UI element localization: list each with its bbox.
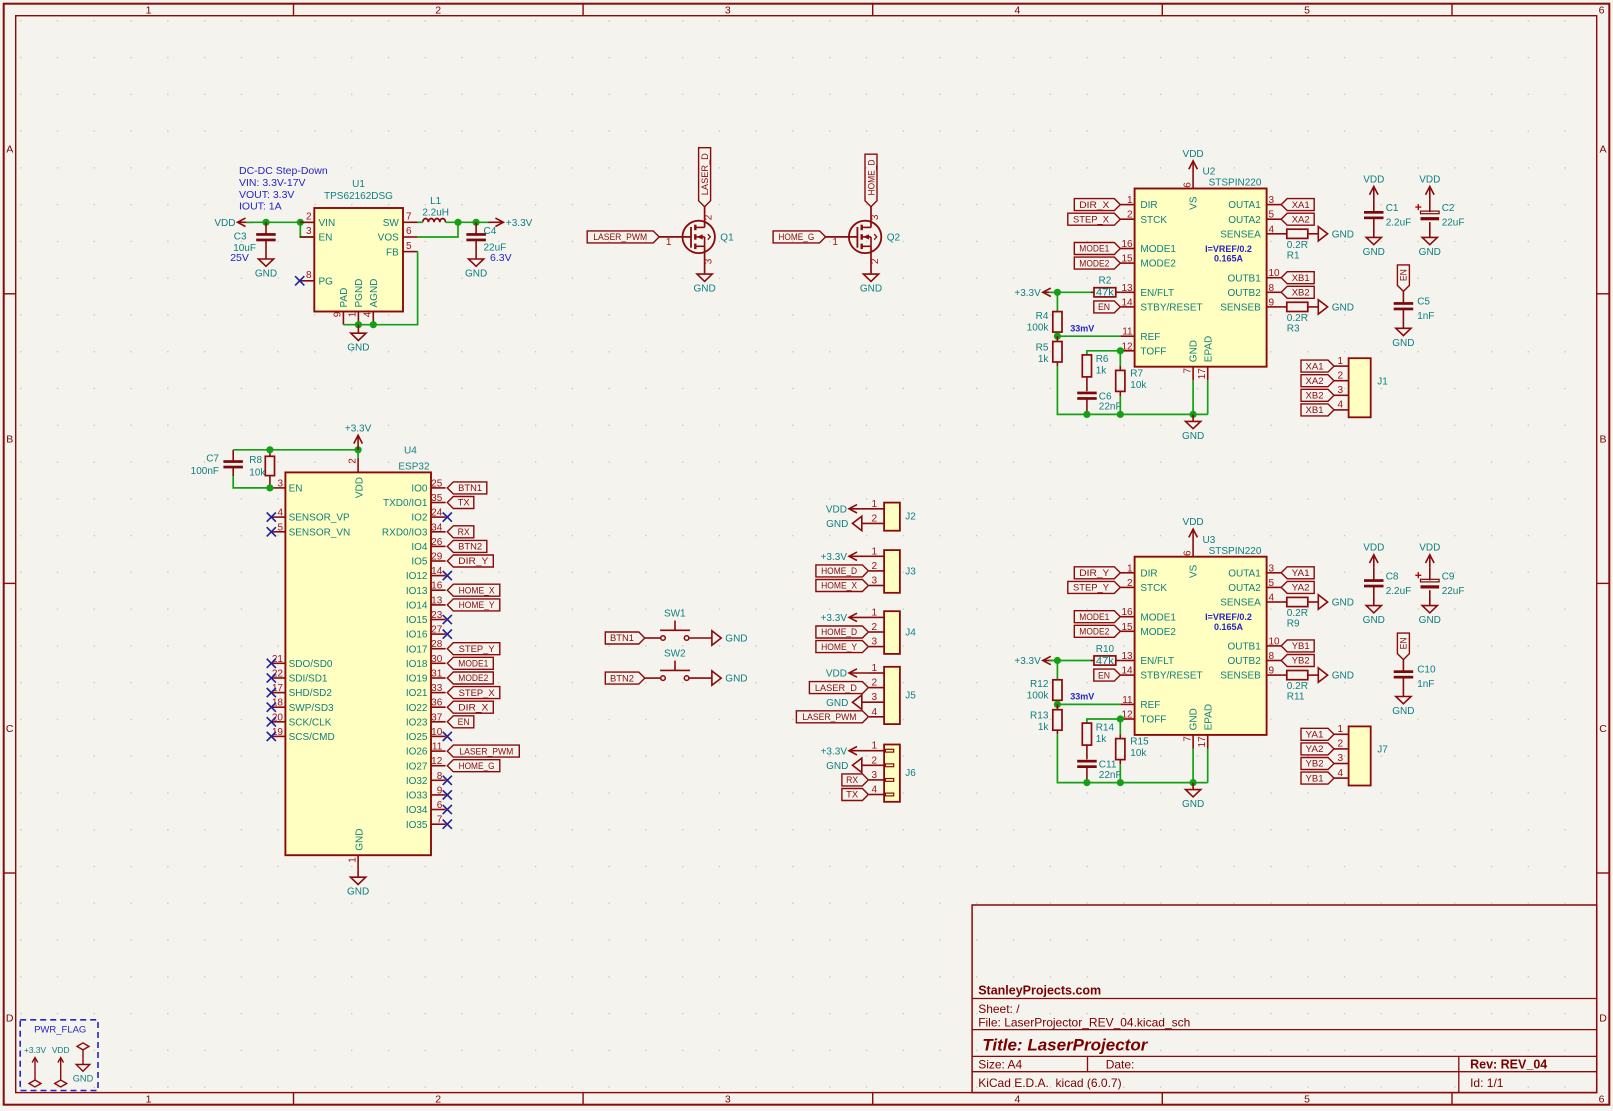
global label LASER_PWM	[587, 231, 659, 243]
svg-text:8: 8	[1269, 651, 1275, 662]
svg-text:9: 9	[1269, 297, 1275, 308]
svg-text:37: 37	[431, 712, 443, 723]
svg-text:1nF: 1nF	[1417, 679, 1434, 690]
svg-text:C3: C3	[234, 232, 247, 243]
svg-text:YA2: YA2	[1306, 744, 1324, 755]
pin 9 SENSEB	[1267, 306, 1282, 308]
junction	[297, 219, 304, 226]
capacitor C4	[466, 222, 506, 259]
svg-text:8: 8	[306, 270, 312, 281]
pin 9 PAD	[342, 312, 344, 325]
svg-text:+3.3V: +3.3V	[345, 423, 372, 434]
IC U3 STSPIN220	[1120, 535, 1281, 749]
pin 7 GND	[1192, 735, 1194, 749]
svg-text:U1: U1	[352, 179, 365, 190]
power flag GND	[73, 1043, 94, 1083]
global label STEP_X	[1068, 213, 1121, 225]
svg-text:6: 6	[1599, 1093, 1605, 1105]
pin 3 source	[704, 246, 706, 273]
svg-text:14: 14	[1121, 297, 1133, 308]
pin 20 SCK/CLK	[271, 721, 285, 723]
svg-text:IO0: IO0	[411, 484, 428, 495]
no-connect	[267, 659, 276, 668]
svg-text:J1: J1	[1377, 376, 1388, 387]
svg-text:1: 1	[1127, 195, 1133, 206]
pin 10 OUTB1	[1267, 277, 1282, 279]
svg-text:TPS62162DSG: TPS62162DSG	[324, 191, 393, 202]
svg-text:YA2: YA2	[1292, 583, 1310, 594]
pin 3 drain	[870, 207, 872, 228]
svg-text:SENSOR_VN: SENSOR_VN	[289, 527, 351, 538]
global label YA1	[1301, 728, 1334, 740]
svg-text:VIN: VIN	[319, 218, 336, 229]
IC U4 ESP32	[271, 445, 445, 870]
svg-text:11: 11	[432, 742, 443, 753]
pin 1	[869, 555, 884, 557]
resistor R11 0.2R	[1281, 671, 1318, 703]
global label DIR_X	[447, 701, 493, 713]
power VDD	[1183, 149, 1204, 174]
svg-text:MODE2: MODE2	[1140, 627, 1176, 638]
svg-text:GND: GND	[73, 1073, 94, 1083]
svg-text:22: 22	[272, 669, 284, 680]
svg-text:VDD: VDD	[354, 477, 365, 498]
svg-text:C5: C5	[1417, 296, 1430, 307]
svg-text:DC-DC Step-Down: DC-DC Step-Down	[239, 165, 328, 177]
svg-text:VDD: VDD	[826, 669, 847, 680]
wire	[1119, 719, 1121, 734]
pin 6 VS	[1192, 174, 1194, 189]
power VDD	[1363, 543, 1384, 568]
junction	[1054, 701, 1061, 708]
svg-text:Date:: Date:	[1106, 1057, 1135, 1071]
pin 1 gate	[826, 236, 858, 238]
note DC-DC Step-Down specs	[239, 165, 328, 212]
svg-text:XB1: XB1	[1292, 273, 1310, 284]
svg-text:2: 2	[871, 622, 877, 633]
global label HOME_D	[865, 154, 877, 207]
svg-text:EN: EN	[289, 484, 303, 495]
global label LASER_D	[809, 682, 868, 694]
wire	[1087, 351, 1120, 355]
svg-text:IO4: IO4	[411, 542, 428, 553]
svg-text:R4: R4	[1036, 311, 1049, 322]
pin 5 SENSOR_VN	[271, 531, 285, 533]
svg-text:DIR_X: DIR_X	[1079, 200, 1110, 211]
svg-text:LASER_PWM: LASER_PWM	[459, 746, 513, 757]
junction	[370, 321, 377, 328]
svg-text:24: 24	[431, 508, 443, 519]
svg-text:17: 17	[1197, 736, 1208, 748]
pin 1	[1334, 733, 1349, 735]
wire	[233, 449, 358, 451]
wire	[300, 222, 314, 237]
no-connect	[267, 673, 276, 682]
svg-text:C1: C1	[1386, 203, 1399, 214]
svg-text:TOFF: TOFF	[1140, 715, 1166, 726]
pin 1 gate	[659, 236, 691, 238]
pin 6 VOS	[403, 236, 418, 238]
svg-text:5: 5	[277, 522, 283, 533]
junction	[1054, 289, 1061, 296]
svg-text:VOUT: 3.3V: VOUT: 3.3V	[239, 189, 294, 201]
svg-text:BTN2: BTN2	[458, 542, 482, 553]
svg-text:47k: 47k	[1096, 288, 1115, 299]
pin 34 RXD0/IO3	[431, 531, 446, 533]
svg-text:33: 33	[431, 683, 443, 694]
svg-text:IO12: IO12	[406, 571, 428, 582]
capacitor C9 22uF polarized	[1415, 567, 1464, 605]
svg-text:GND: GND	[1392, 338, 1414, 349]
power +3.3V	[821, 746, 869, 757]
svg-text:IO34: IO34	[406, 805, 428, 816]
pin 33 IO21	[431, 692, 446, 694]
capacitor C5 1nF	[1394, 291, 1435, 328]
power flag VDD	[52, 1045, 70, 1087]
pin 37 IO23	[431, 721, 446, 723]
svg-text:10k: 10k	[249, 467, 266, 478]
global label RX	[842, 774, 869, 786]
power VDD	[214, 218, 253, 229]
svg-text:1: 1	[871, 546, 877, 557]
connector J6	[862, 741, 916, 802]
svg-text:1: 1	[146, 4, 152, 16]
svg-text:MODE2: MODE2	[1079, 627, 1109, 638]
svg-text:GND: GND	[1363, 247, 1385, 258]
svg-text:GND: GND	[465, 269, 487, 280]
svg-text:3: 3	[871, 637, 877, 648]
junction	[355, 321, 362, 328]
svg-text:GND: GND	[693, 284, 715, 295]
junction	[1117, 715, 1124, 722]
no-connect	[267, 717, 276, 726]
svg-text:YA1: YA1	[1306, 730, 1324, 741]
global label TX	[842, 789, 869, 801]
svg-text:J2: J2	[905, 512, 916, 523]
svg-text:9: 9	[437, 785, 443, 796]
svg-text:15: 15	[1121, 254, 1133, 265]
svg-text:B: B	[6, 433, 13, 445]
svg-text:0.2R: 0.2R	[1287, 608, 1308, 619]
pin 17 EPAD	[1207, 735, 1209, 749]
wire	[357, 450, 359, 458]
svg-text:29: 29	[431, 552, 443, 563]
wire	[1056, 292, 1058, 311]
svg-text:1: 1	[347, 857, 358, 863]
resistor R13 1k	[1030, 704, 1062, 734]
pin 2 STCK	[1120, 586, 1134, 588]
global label YA2	[1281, 581, 1314, 593]
pin 4	[869, 716, 884, 718]
svg-text:2: 2	[871, 678, 877, 689]
svg-text:STEP_X: STEP_X	[459, 688, 496, 699]
svg-text:SW: SW	[383, 218, 400, 229]
capacitor C10 1nF	[1394, 660, 1436, 697]
pin 15 MODE2	[1120, 630, 1134, 632]
svg-text:A: A	[6, 144, 13, 156]
svg-text:MODE2: MODE2	[458, 673, 488, 684]
pin 8 OUTB2	[1267, 291, 1282, 293]
global label EN	[447, 716, 474, 728]
svg-text:9: 9	[333, 311, 344, 317]
pin 4	[1334, 409, 1349, 411]
global label HOME_G	[773, 231, 826, 243]
svg-text:RX: RX	[846, 775, 859, 786]
svg-text:VOS: VOS	[378, 233, 399, 244]
svg-text:4: 4	[1014, 1093, 1020, 1105]
no-connect	[443, 615, 452, 624]
svg-text:5: 5	[1269, 578, 1275, 589]
svg-text:LASER_D: LASER_D	[815, 683, 857, 694]
svg-text:0.2R: 0.2R	[1287, 313, 1308, 324]
svg-text:R12: R12	[1030, 679, 1049, 690]
connector J1	[1334, 356, 1388, 418]
global label MODE1	[447, 657, 493, 669]
svg-text:L1: L1	[430, 196, 442, 207]
svg-text:IO14: IO14	[406, 601, 428, 612]
svg-text:16: 16	[431, 581, 443, 592]
pin 6 IO34	[431, 809, 446, 811]
svg-text:MODE1: MODE1	[1079, 244, 1109, 255]
junction	[1083, 779, 1090, 786]
pin 1 DIR	[1120, 572, 1134, 574]
svg-text:GND: GND	[354, 829, 365, 851]
svg-text:VS: VS	[1189, 564, 1200, 578]
svg-text:26: 26	[431, 537, 443, 548]
svg-text:STEP_X: STEP_X	[1073, 214, 1110, 225]
svg-text:I=VREF/0.2: I=VREF/0.2	[1205, 244, 1252, 254]
svg-text:GND: GND	[255, 269, 277, 280]
svg-text:MODE2: MODE2	[1079, 258, 1109, 269]
svg-text:Q2: Q2	[887, 233, 901, 244]
svg-text:SDI/SD1: SDI/SD1	[289, 674, 328, 685]
svg-text:17: 17	[1197, 368, 1208, 380]
svg-text:C7: C7	[206, 453, 219, 464]
svg-text:R5: R5	[1036, 342, 1049, 353]
svg-text:7: 7	[1182, 736, 1193, 742]
svg-text:22uF: 22uF	[1442, 218, 1465, 229]
svg-text:C10: C10	[1417, 665, 1436, 676]
pin 11 IO26	[431, 750, 446, 752]
svg-text:Title: LaserProjector: Title: LaserProjector	[982, 1036, 1148, 1055]
svg-text:SHD/SD2: SHD/SD2	[289, 688, 333, 699]
svg-text:YB2: YB2	[1292, 656, 1310, 667]
svg-text:27: 27	[431, 625, 443, 636]
pin 2	[689, 677, 712, 679]
pin 28 IO17	[431, 648, 446, 650]
global label LASER_PWM	[447, 745, 519, 757]
global label HOME_D	[816, 565, 869, 577]
wire	[246, 221, 314, 223]
wire	[1207, 749, 1209, 783]
pin 3 OUTA1	[1267, 572, 1282, 574]
global label MODE2	[1074, 257, 1120, 269]
svg-text:18: 18	[272, 698, 284, 709]
ground	[1318, 668, 1354, 682]
svg-text:100k: 100k	[1027, 323, 1050, 334]
svg-text:ESP32: ESP32	[398, 461, 430, 472]
svg-text:IO13: IO13	[406, 586, 428, 597]
svg-text:4: 4	[1014, 4, 1020, 16]
pin 14 IO12	[431, 575, 446, 577]
svg-text:25V: 25V	[230, 252, 249, 264]
wire	[343, 252, 417, 325]
pin 2	[862, 764, 884, 766]
svg-text:15: 15	[1121, 622, 1133, 633]
svg-text:IO5: IO5	[411, 557, 428, 568]
svg-text:VDD: VDD	[1419, 543, 1440, 554]
svg-text:2: 2	[435, 1093, 441, 1105]
svg-text:STCK: STCK	[1140, 215, 1167, 226]
no-connect	[443, 805, 452, 814]
svg-text:10k: 10k	[1130, 380, 1147, 391]
svg-text:C9: C9	[1442, 571, 1455, 582]
svg-text:3: 3	[306, 226, 312, 237]
svg-text:B: B	[1599, 433, 1606, 445]
power +3.3V	[1014, 656, 1052, 667]
no-connect	[443, 732, 452, 741]
svg-text:PAD: PAD	[339, 288, 350, 308]
svg-text:GND: GND	[347, 887, 369, 898]
wire	[1087, 719, 1120, 723]
svg-text:3: 3	[870, 214, 881, 220]
power VDD	[826, 669, 869, 680]
svg-text:GND: GND	[1189, 708, 1200, 730]
svg-text:SENSEA: SENSEA	[1220, 229, 1261, 240]
svg-text:28: 28	[431, 639, 443, 650]
svg-text:GND: GND	[826, 698, 848, 709]
svg-text:YB1: YB1	[1292, 641, 1310, 652]
svg-text:GND: GND	[1363, 615, 1385, 626]
pin 27 IO16	[431, 633, 446, 635]
svg-text:100nF: 100nF	[191, 466, 219, 477]
pin 18 SWP/SD3	[271, 706, 285, 708]
svg-text:OUTB2: OUTB2	[1227, 288, 1261, 299]
capacitor C3	[233, 222, 276, 259]
pin 7 IO35	[431, 823, 446, 825]
transistor Q2	[826, 207, 901, 274]
svg-text:1: 1	[1338, 724, 1344, 735]
svg-text:IO2: IO2	[411, 513, 428, 524]
global label XA2	[1281, 213, 1314, 225]
connector J3	[869, 546, 916, 593]
svg-text:35: 35	[431, 493, 443, 504]
svg-text:2: 2	[1127, 578, 1133, 589]
pin 2	[1334, 748, 1349, 750]
pin 21 SDO/SD0	[271, 662, 285, 664]
svg-text:19: 19	[272, 727, 284, 738]
pin 12 IO27	[431, 765, 446, 767]
pin 2	[869, 631, 884, 633]
svg-text:3: 3	[703, 258, 714, 264]
connector J4	[869, 607, 916, 654]
svg-text:R15: R15	[1130, 737, 1149, 748]
connector J7	[1334, 724, 1388, 786]
svg-text:R3: R3	[1287, 323, 1300, 334]
no-connect	[443, 820, 452, 829]
svg-text:1k: 1k	[1096, 366, 1108, 377]
global label MODE1	[1074, 611, 1120, 623]
connector J5	[862, 663, 916, 724]
pin 1	[1334, 365, 1349, 367]
svg-text:1: 1	[666, 237, 672, 248]
svg-text:C: C	[1599, 723, 1607, 735]
svg-text:HOME_D: HOME_D	[821, 566, 857, 577]
wire	[1057, 734, 1207, 782]
svg-text:VS: VS	[1189, 196, 1200, 210]
svg-text:6.3V: 6.3V	[490, 252, 512, 264]
svg-text:Sheet: /: Sheet: /	[978, 1002, 1020, 1016]
pin 3	[862, 701, 884, 703]
svg-text:10: 10	[1269, 268, 1281, 279]
svg-text:25: 25	[431, 478, 443, 489]
svg-text:2: 2	[870, 258, 881, 264]
svg-text:R14: R14	[1096, 722, 1115, 733]
svg-text:DIR_Y: DIR_Y	[458, 556, 489, 567]
svg-text:20: 20	[272, 712, 284, 723]
ground	[1182, 783, 1204, 811]
ground	[1419, 606, 1441, 627]
wire	[1192, 749, 1194, 783]
capacitor C8 2.2uF	[1364, 567, 1411, 605]
svg-text:File: LaserProjector_REV_04.ki: File: LaserProjector_REV_04.kicad_sch	[978, 1015, 1190, 1029]
svg-text:SW1: SW1	[664, 609, 686, 620]
pin 4 SENSEA	[1267, 233, 1282, 235]
svg-text:0.165A: 0.165A	[1214, 254, 1244, 264]
power +3.3V	[345, 423, 372, 450]
svg-text:HOME_G: HOME_G	[778, 232, 814, 243]
svg-text:SWP/SD3: SWP/SD3	[289, 703, 334, 714]
svg-text:10: 10	[1269, 636, 1281, 647]
junction	[1117, 411, 1124, 418]
svg-text:22uF: 22uF	[1442, 586, 1465, 597]
svg-text:4: 4	[1269, 593, 1275, 604]
svg-text:3: 3	[277, 478, 283, 489]
svg-text:5: 5	[1304, 4, 1310, 16]
pin 29 IO5	[431, 560, 446, 562]
global label STEP_Y	[447, 643, 500, 655]
svg-text:2: 2	[1338, 739, 1344, 750]
svg-text:0.165A: 0.165A	[1214, 622, 1244, 632]
pin 17 SHD/SD2	[271, 692, 285, 694]
svg-text:XB2: XB2	[1292, 288, 1310, 299]
svg-text:GND: GND	[1332, 598, 1354, 609]
global label DIR_X	[1074, 199, 1120, 211]
svg-text:6: 6	[1182, 182, 1193, 188]
junction	[1054, 333, 1061, 340]
junction	[1190, 779, 1197, 786]
svg-text:5: 5	[1269, 210, 1275, 221]
svg-text:1: 1	[1127, 563, 1133, 574]
global label HOME_G	[447, 760, 500, 772]
pin 5 OUTA2	[1267, 586, 1282, 588]
svg-text:+3.3V: +3.3V	[506, 218, 533, 229]
svg-text:2: 2	[871, 561, 877, 572]
global label EN	[1094, 669, 1121, 681]
global label HOME_X	[816, 580, 869, 592]
junction	[1117, 347, 1124, 354]
power VDD	[1363, 175, 1384, 200]
svg-text:2: 2	[1127, 210, 1133, 221]
title block	[972, 905, 1597, 1093]
resistor R5 1k	[1036, 336, 1062, 366]
svg-text:1nF: 1nF	[1417, 311, 1434, 322]
pin 2	[689, 637, 712, 639]
svg-text:J6: J6	[905, 768, 916, 779]
global label HOME_D	[816, 626, 869, 638]
svg-text:SENSEB: SENSEB	[1220, 303, 1261, 314]
capacitor C1 2.2uF	[1364, 199, 1411, 237]
